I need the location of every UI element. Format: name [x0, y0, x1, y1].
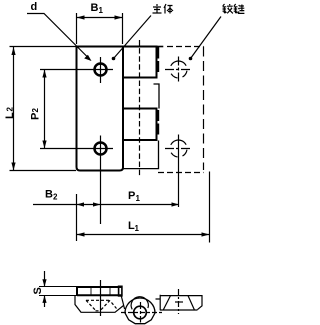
hinge leaf dashed outline bottom: [158, 172, 204, 174]
barrel outline: [125, 298, 155, 324]
hinge leaf dashed outline right: [203, 47, 205, 171]
svg-text:1: 1: [135, 224, 140, 233]
svg-text:d: d: [31, 1, 38, 13]
open leaf hole centerline: [178, 289, 180, 314]
knuckle band3 right bar: [157, 110, 159, 135]
side plate end bar: [119, 286, 122, 296]
svg-text:1: 1: [99, 6, 104, 15]
label 铰链 (CJK drawn as strokes): [223, 4, 245, 14]
plate main body outline: [77, 47, 124, 171]
svg-text:S: S: [32, 287, 44, 294]
svg-text:P: P: [128, 190, 135, 202]
S extension lines: [39, 286, 78, 288]
knuckle band1 right bar: [157, 47, 159, 73]
open leaf countersink edges: [163, 296, 194, 310]
svg-text:B: B: [45, 189, 53, 201]
leader 主体: [114, 16, 152, 59]
leader 铰链: [191, 17, 222, 59]
hole1 centerlines: [40, 69, 113, 71]
dimension L2: [4, 107, 16, 120]
folded leaf countersink hidden: [86, 300, 117, 311]
dimension P2: [30, 108, 42, 121]
side plate: [77, 287, 122, 295]
leader d: [27, 14, 89, 59]
knuckle band2 edge: [154, 84, 160, 109]
hinge hole1 dashed: [167, 58, 190, 81]
svg-text:2: 2: [31, 108, 40, 113]
hinge leaf dashed outline top: [167, 46, 204, 48]
barrel inner wrap arc: [131, 297, 148, 310]
hinge hole2 dashed (vertical doubles as P1 extension): [167, 137, 190, 160]
hole2: [95, 143, 107, 155]
knuckle band4 edge: [123, 141, 159, 169]
pin centerline: [139, 40, 141, 177]
knuckle band1: [123, 47, 157, 78]
hole2 centerlines (vertical doubles as B2/P1 extension): [40, 148, 113, 150]
svg-text:P: P: [30, 113, 42, 120]
folded leaf below plate: [75, 296, 124, 312]
dimension S: [32, 287, 44, 294]
side hole hidden edges: [90, 287, 92, 296]
barrel connection: [121, 296, 124, 309]
side hole centerline: [100, 280, 102, 316]
svg-text:1: 1: [136, 194, 141, 203]
open leaf profile right: [156, 295, 203, 310]
svg-text:L: L: [4, 112, 16, 119]
pin centerlines: [121, 312, 162, 314]
svg-text:B: B: [91, 2, 99, 14]
hole1: [95, 64, 107, 76]
pin circle: [134, 306, 147, 319]
knuckle band3: [123, 109, 157, 141]
label 主体 (CJK drawn as strokes): [153, 4, 174, 14]
svg-text:2: 2: [53, 193, 58, 202]
